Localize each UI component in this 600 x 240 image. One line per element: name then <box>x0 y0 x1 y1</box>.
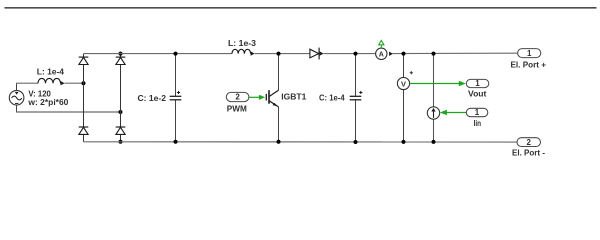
signal stub ammeter output (green arrow up) <box>379 40 384 48</box>
svg-text:2: 2 <box>235 93 240 102</box>
inductor L1 <box>38 78 65 85</box>
wire: bridge right leg <box>120 54 122 142</box>
IGBT Q1 <box>266 54 278 142</box>
svg-text:w: 2*pi*60: w: 2*pi*60 <box>27 97 68 107</box>
svg-text:El. Port -: El. Port - <box>512 147 545 157</box>
svg-text:PWM: PWM <box>227 104 247 114</box>
AC voltage source V1 <box>9 90 24 105</box>
inport 1 Iin oval <box>466 108 488 117</box>
svg-text:Vout: Vout <box>468 89 487 99</box>
svg-text:C: 1e-4: C: 1e-4 <box>319 92 345 102</box>
node current source top <box>432 52 436 56</box>
label V: 120 / w: 2*pi*60 <box>27 89 68 107</box>
svg-text:C: 1e-2: C: 1e-2 <box>138 93 167 103</box>
signal wire Iin to current source (green) <box>440 110 466 116</box>
diode D2 (bridge top-right) <box>116 57 126 64</box>
ammeter A1 <box>376 48 393 59</box>
svg-text:L: 1e-3: L: 1e-3 <box>228 38 256 48</box>
node: bridge DC- right leg <box>119 140 123 144</box>
wire: top rail <box>84 52 518 54</box>
signal wire voltmeter to Vout (green) <box>410 81 466 87</box>
wire: bottom rail <box>84 141 518 143</box>
node voltmeter bottom <box>402 140 406 144</box>
connection port 1 El. Port + oval <box>518 49 541 58</box>
capacitor C1 branch wires <box>175 54 177 142</box>
wire: bridge left leg <box>83 54 85 142</box>
svg-text:Iin: Iin <box>474 118 482 128</box>
node IGBT collector <box>277 52 281 56</box>
node voltmeter top <box>402 52 406 56</box>
signal wire PWM to IGBT gate (green) <box>249 95 265 100</box>
diode D5 (series boost diode) <box>310 48 324 60</box>
svg-text:V: V <box>401 79 406 88</box>
controlled current source <box>427 107 439 119</box>
wire: source bottom loop <box>16 105 18 112</box>
capacitor C1 <box>170 91 182 100</box>
diode D4 (bridge bottom-right) <box>116 127 126 134</box>
svg-text:1: 1 <box>527 49 532 58</box>
node: bridge DC+ right leg <box>119 52 123 56</box>
node: AC input left leg <box>82 81 86 85</box>
svg-text:IGBT1: IGBT1 <box>281 92 306 102</box>
svg-text:El. Port +: El. Port + <box>511 59 547 69</box>
node: AC input right leg <box>119 110 123 114</box>
top divider rule <box>5 7 597 9</box>
svg-text:2: 2 <box>526 138 531 147</box>
wire: L1 to bridge left leg <box>65 82 84 84</box>
node C1 bottom <box>174 140 178 144</box>
diode D3 (bridge bottom-left) <box>79 127 89 134</box>
svg-text:1: 1 <box>475 108 480 117</box>
node current source bottom <box>432 140 436 144</box>
capacitor C2 <box>350 91 363 100</box>
node C2 bottom <box>354 140 358 144</box>
svg-text:1: 1 <box>475 79 480 88</box>
connection port 2 El. Port - oval <box>517 138 541 147</box>
voltmeter V <box>397 71 413 90</box>
capacitor C2 branch wires <box>355 54 357 142</box>
svg-text:A: A <box>379 52 384 59</box>
node C1 top <box>174 52 178 56</box>
controlled current source branch wires <box>433 54 435 142</box>
diode D1 (bridge top-left) <box>79 57 89 64</box>
node IGBT emitter <box>277 140 281 144</box>
voltmeter branch wires <box>403 54 405 142</box>
svg-text:L: 1e-4: L: 1e-4 <box>37 66 65 76</box>
node C2 top <box>354 52 358 56</box>
wire: source top to inductor L1 <box>16 83 18 90</box>
inductor L2 <box>232 49 255 56</box>
outport 1 Vout oval <box>466 79 489 88</box>
inport 2 PWM oval <box>226 92 249 101</box>
